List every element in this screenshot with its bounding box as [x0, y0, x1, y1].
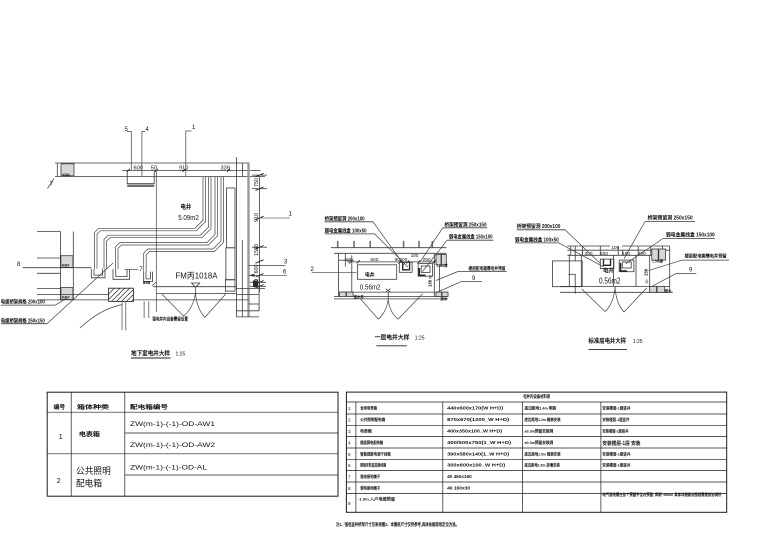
center mullion — [613, 255, 615, 286]
x marker — [386, 289, 391, 292]
wall ticks above — [338, 241, 433, 248]
shaft left vertical — [580, 255, 582, 286]
wall second line — [567, 249, 669, 251]
svg-text:废水: 废水 — [441, 296, 448, 301]
dim line — [347, 261, 439, 263]
svg-text:桥架预留洞 250x150: 桥架预留洞 250x150 — [445, 221, 487, 228]
lower right wall grid — [237, 275, 266, 317]
equipment table frame — [346, 392, 726, 512]
svg-text:250: 250 — [638, 251, 646, 257]
dim ticks on wall — [127, 169, 230, 172]
svg-text:底边距地1.5m 暗装安装: 底边距地1.5m 暗装安装 — [524, 451, 561, 456]
svg-text:1.5m厚: 1.5m厚 — [437, 263, 449, 268]
svg-text:弱电金属线盒 150x100: 弱电金属线盒 150x100 — [666, 231, 715, 238]
bottom inner line — [560, 285, 670, 287]
svg-text:标准层电井大样: 标准层电井大样 — [588, 337, 626, 345]
column lines — [70, 392, 72, 496]
left notch — [568, 254, 570, 286]
svg-text:底边距地1.2m 暗装安装: 底边距地1.2m 暗装安装 — [524, 417, 561, 422]
shaft divider vertical — [635, 255, 637, 286]
svg-text:±0.3m预留安装洞: ±0.3m预留安装洞 — [525, 429, 554, 434]
door center post — [387, 292, 389, 299]
left wall step — [344, 254, 346, 267]
svg-text:1: 1 — [59, 434, 63, 441]
svg-text:100: 100 — [411, 253, 419, 258]
svg-text:电缆桥架规格 200x100: 电缆桥架规格 200x100 — [1, 299, 45, 306]
col mounting — [524, 406, 561, 468]
svg-text:1:25: 1:25 — [415, 336, 425, 342]
svg-text:废水: 废水 — [665, 288, 672, 293]
door frame lines below hatch — [121, 301, 123, 330]
door swing arc left — [80, 305, 123, 329]
svg-text:弱电金属线盒 100x50: 弱电金属线盒 100x50 — [515, 236, 559, 243]
door center post — [614, 286, 616, 292]
riser small box — [225, 280, 235, 292]
svg-text:安装楼层-1层竖井: 安装楼层-1层竖井 — [602, 417, 629, 422]
door sill triangle — [192, 283, 200, 287]
wall top line — [567, 245, 610, 247]
cable box fixture1 — [600, 259, 614, 268]
svg-text:ZW(m-1)-(-1)-OD-AW2: ZW(m-1)-(-1)-OD-AW2 — [130, 442, 215, 449]
svg-text:配电箱编号: 配电箱编号 — [130, 403, 168, 411]
shaft inner box — [357, 265, 396, 280]
wall top line — [331, 247, 447, 249]
door arc right — [615, 288, 624, 312]
wall bottom line — [55, 176, 265, 178]
svg-text:0.56m2: 0.56m2 — [360, 284, 381, 291]
leader 3 right — [249, 265, 286, 267]
svg-text:1:25: 1:25 — [633, 339, 643, 345]
column lines — [355, 402, 357, 512]
svg-text:750: 750 — [254, 178, 260, 187]
niche below wall — [127, 170, 154, 183]
svg-text:地下室电井大样: 地下室电井大样 — [131, 350, 170, 358]
row numbers — [348, 406, 351, 506]
svg-text:1: 1 — [348, 406, 351, 411]
svg-text:50: 50 — [429, 275, 433, 279]
svg-text:868: 868 — [143, 280, 151, 285]
riser rect right tall — [227, 188, 236, 248]
left wall gray block 2 — [61, 288, 73, 300]
left outer box — [552, 261, 582, 287]
wall top line — [55, 162, 249, 164]
svg-text:合用电表箱: 合用电表箱 — [359, 406, 377, 411]
svg-text:150: 150 — [644, 268, 649, 276]
junction dark mark — [253, 281, 258, 288]
svg-text:±0.3m预留安装洞: ±0.3m预留安装洞 — [525, 440, 554, 445]
bottom outer line — [560, 291, 673, 293]
riser rect right lower — [226, 248, 235, 280]
svg-text:电井: 电井 — [365, 271, 375, 278]
svg-text:安装楼层-1层竖井: 安装楼层-1层竖井 — [602, 429, 628, 434]
svg-text:电气管线需在各个预留平位内预留, 间距~25mm 具体详细做: 电气管线需在各个预留平位内预留, 间距~25mm 具体详细做法图纸需提前协调好 — [602, 492, 721, 497]
svg-text:公共照明配电箱: 公共照明配电箱 — [360, 417, 385, 422]
svg-text:强电接地端子: 强电接地端子 — [360, 474, 380, 479]
svg-text:一层电井大样: 一层电井大样 — [375, 334, 410, 342]
conduit shoe left A — [91, 269, 105, 278]
svg-text:9: 9 — [348, 501, 351, 506]
svg-text:楼层配电箱需电井预留: 楼层配电箱需电井预留 — [685, 253, 727, 260]
wall right vertical inner thick — [247, 163, 249, 317]
bottom inner line — [339, 291, 447, 293]
svg-text:底边距地1.5m 挂墙安装: 底边距地1.5m 挂墙安装 — [524, 463, 560, 468]
svg-text:0.56m2: 0.56m2 — [599, 276, 621, 285]
svg-text:弱电接地端子: 弱电接地端子 — [360, 486, 380, 491]
basement door arc right — [196, 293, 205, 318]
door leaf right — [624, 288, 647, 312]
cable box fixture2 — [619, 260, 634, 272]
svg-text:1560: 1560 — [254, 244, 260, 256]
wall gray block KM — [61, 164, 74, 176]
svg-text:KM#: KM# — [62, 263, 69, 267]
svg-text:公共照明: 公共照明 — [76, 466, 111, 476]
basement door arc left — [184, 293, 196, 317]
basement door leaf right — [205, 294, 226, 318]
svg-text:智能疏散电源干线箱: 智能疏散电源干线箱 — [359, 451, 390, 456]
conduit shoe left B (mark 7 target) — [113, 269, 130, 279]
svg-text:弱电金属线盒 150x100: 弱电金属线盒 150x100 — [449, 234, 493, 241]
door arc left — [378, 300, 388, 320]
gray blocks bottom-left — [339, 292, 346, 297]
row lines — [346, 402, 726, 493]
wall second line — [334, 252, 447, 254]
wall right short vertical — [241, 163, 243, 177]
svg-text:楼层配电箱需电井预留: 楼层配电箱需电井预留 — [469, 265, 506, 272]
leader 6 right — [249, 274, 288, 276]
svg-text:150: 150 — [428, 279, 433, 287]
svg-text:电井: 电井 — [181, 203, 192, 211]
svg-text:ZW(m-1)-(-1)-OD-AL: ZW(m-1)-(-1)-OD-AL — [130, 465, 207, 472]
conduit run P4 — [144, 177, 224, 272]
door leaf left — [582, 289, 606, 312]
corridor wall line — [37, 299, 249, 301]
svg-text:2: 2 — [348, 418, 351, 423]
left wall gray block 1 — [61, 256, 73, 268]
svg-text:6: 6 — [348, 463, 351, 468]
row lines — [47, 411, 338, 413]
conduit run P1 — [95, 177, 206, 269]
cable box fixture2 — [418, 264, 433, 277]
svg-text:电井: 电井 — [603, 266, 614, 274]
basement door head line — [153, 286, 236, 288]
dim line — [567, 254, 651, 256]
wall dim line — [122, 169, 260, 171]
left lower wall verticals — [59, 232, 61, 300]
svg-text:底边距地1.4m 明装: 底边距地1.4m 明装 — [524, 406, 557, 411]
svg-text:桥架预留洞 200x100: 桥架预留洞 200x100 — [517, 223, 561, 230]
TABLE_RIGHT — [336, 392, 727, 528]
svg-text:楼层弱电配线箱: 楼层弱电配线箱 — [360, 440, 383, 445]
TABLE_LEFT — [47, 392, 338, 496]
svg-text:编号: 编号 — [54, 403, 66, 411]
svg-text:电表箱: 电表箱 — [79, 431, 100, 439]
svg-text:40 450x160: 40 450x160 — [447, 474, 472, 479]
svg-text:安装楼层-1层竖井: 安装楼层-1层竖井 — [602, 406, 630, 411]
gray blocks bottom-right — [650, 286, 657, 292]
svg-text:400x350x100_W H+D): 400x350x100_W H+D) — [447, 429, 503, 434]
basement door leaf left — [162, 294, 184, 316]
svg-text:-1.0m.入户电缆预留: -1.0m.入户电缆预留 — [358, 497, 395, 502]
right cap vertical — [669, 246, 671, 292]
wall tick verticals — [571, 246, 663, 255]
PLAN_BASEMENT — [1, 125, 293, 358]
svg-text:440x600x170(W H+D): 440x600x170(W H+D) — [447, 406, 504, 411]
shaft right vertical — [649, 255, 651, 292]
svg-text:7: 7 — [348, 475, 351, 480]
svg-text:300: 300 — [585, 251, 593, 257]
DETAIL_FLOOR1 — [311, 215, 507, 345]
svg-text:安装楼层-1层竖井: 安装楼层-1层竖井 — [602, 451, 630, 456]
svg-text:390x580x140(1_W H+D): 390x580x140(1_W H+D) — [447, 451, 510, 456]
svg-text:ZW(m-1)-(-1)-OD-AW1: ZW(m-1)-(-1)-OD-AW1 — [130, 421, 215, 428]
svg-text:电表箱: 电表箱 — [360, 429, 372, 434]
svg-text:桥架预留洞 200x100: 桥架预留洞 200x100 — [325, 215, 365, 222]
gray blocks top-right — [652, 249, 658, 260]
svg-text:楼层安防监控接线箱: 楼层安防监控接线箱 — [360, 463, 386, 468]
svg-text:安装楼层-1层 安装: 安装楼层-1层 安装 — [602, 440, 640, 447]
door leaf left — [361, 299, 379, 319]
svg-text:注1、强电竖井桥架尺寸见系统图2、本图纸尺寸仅供参考,具体依: 注1、强电竖井桥架尺寸见系统图2、本图纸尺寸仅供参考,具体依据现场定位为准。 — [336, 521, 459, 528]
svg-text:40 160x30: 40 160x30 — [447, 486, 471, 491]
svg-text:4: 4 — [348, 441, 351, 446]
svg-text:2: 2 — [57, 478, 61, 485]
gray blocks top-right — [436, 255, 441, 265]
cable box fixture1 — [399, 263, 412, 273]
conduit shoe left C — [144, 272, 153, 282]
svg-text:强电井内设备需留设置: 强电井内设备需留设置 — [152, 316, 188, 323]
door arc left — [605, 288, 615, 311]
col equipment names — [358, 406, 395, 502]
svg-text:5: 5 — [348, 452, 351, 457]
dim ticks — [349, 260, 436, 263]
svg-text:300x600x100_W H+D): 300x600x100_W H+D) — [447, 463, 506, 468]
DETAIL_TYPICAL — [515, 215, 729, 350]
svg-text:5.09m2: 5.09m2 — [178, 215, 199, 222]
svg-text:1:25: 1:25 — [176, 352, 186, 358]
basement door center post — [195, 288, 197, 294]
svg-text:200: 200 — [600, 251, 608, 257]
svg-text:8: 8 — [348, 486, 351, 491]
wall right vertical outer — [236, 157, 238, 317]
svg-text:KM#: KM# — [63, 173, 70, 177]
svg-text:箱体种类: 箱体种类 — [77, 403, 109, 411]
svg-text:3: 3 — [348, 429, 351, 434]
svg-text:安装楼层-1层竖井: 安装楼层-1层竖井 — [602, 463, 630, 468]
svg-text:电井内设备材料表: 电井内设备材料表 — [523, 393, 550, 400]
shaft left vertical — [351, 255, 353, 292]
dim chain ticks — [256, 173, 264, 288]
svg-text:1.5m厚: 1.5m厚 — [652, 259, 664, 264]
svg-text:870x670(1200_W H+D): 870x670(1200_W H+D) — [447, 417, 510, 422]
left wall vertical outer — [338, 253, 340, 296]
wall left cap — [56, 163, 58, 177]
svg-text:50: 50 — [645, 280, 649, 284]
leader 1 right — [260, 217, 291, 219]
hatched sleeve block — [109, 288, 134, 301]
svg-text:桥架预留洞 250x150: 桥架预留洞 250x150 — [648, 215, 693, 222]
svg-text:180: 180 — [622, 251, 630, 257]
col install floor — [602, 406, 721, 498]
svg-text:FM丙1018A: FM丙1018A — [176, 271, 218, 281]
col sizes — [447, 406, 512, 491]
svg-text:电缆桥架规格 250x150: 电缆桥架规格 250x150 — [1, 317, 45, 324]
svg-text:910: 910 — [254, 213, 260, 222]
svg-text:400/500x750(1_W H+D): 400/500x750(1_W H+D) — [447, 440, 512, 445]
dim chain extension lines — [252, 174, 267, 176]
long vertical wire to door — [155, 170, 157, 312]
conduit run P3 — [116, 177, 218, 269]
dim chain vertical — [259, 177, 261, 293]
panel table frame — [47, 392, 338, 496]
basement door sill line — [156, 293, 236, 295]
conduit run P2 — [104, 177, 211, 269]
bottom outer lines — [334, 296, 448, 298]
door arc right — [388, 300, 398, 320]
left lower wall horizontals — [23, 267, 92, 269]
shaft right verticals — [433, 253, 435, 296]
svg-text:废水井: 废水井 — [354, 294, 365, 299]
gray blocks bottom-right — [436, 292, 442, 296]
svg-text:配电箱: 配电箱 — [76, 478, 102, 489]
door leaf right — [398, 294, 423, 320]
svg-text:600: 600 — [134, 166, 143, 172]
